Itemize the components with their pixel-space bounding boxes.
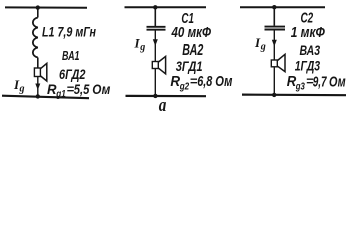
wire: speaker BA1 to bottom rail (37, 77, 39, 97)
svg-text:ВА2: ВА2 (182, 42, 203, 59)
loudspeaker BA3 body (271, 60, 277, 67)
svg-text:L1 7,9 мГн: L1 7,9 мГн (42, 23, 96, 39)
node: circuit 1 top junction (36, 5, 40, 9)
node: circuit 3 top junction (272, 5, 276, 9)
current arrow I_d circuit 2 (153, 39, 158, 46)
svg-text:Ом: Ом (215, 73, 232, 90)
wire: C1 to speaker BA2 (154, 31, 156, 62)
svg-text:g3: g3 (295, 82, 305, 93)
svg-text:1 мкФ: 1 мкФ (291, 24, 325, 41)
loudspeaker BA3 horn (278, 54, 286, 71)
wire: circuit 3 top rail (240, 6, 325, 8)
svg-text:1ГД3: 1ГД3 (295, 59, 321, 74)
wire: circuit 1 top rail (5, 6, 87, 8)
wire: from top junction down to coil (37, 8, 39, 18)
svg-text:6ГД2: 6ГД2 (59, 67, 86, 82)
svg-text:40 мкФ: 40 мкФ (171, 24, 211, 41)
current arrow I_d circuit 3 (272, 40, 277, 47)
svg-text:ВА3: ВА3 (300, 42, 321, 58)
svg-text:g: g (260, 42, 266, 53)
svg-text:Ом: Ом (92, 81, 111, 97)
node: circuit 1 bottom junction (36, 94, 40, 98)
svg-text:g2: g2 (179, 82, 190, 93)
svg-text:3ГД1: 3ГД1 (176, 58, 203, 74)
svg-text:6,8: 6,8 (197, 73, 213, 90)
svg-text:а: а (159, 95, 167, 116)
svg-text:g: g (139, 42, 145, 53)
node: circuit 2 bottom junction (153, 94, 157, 98)
wire: C2 to speaker BA3 (273, 30, 275, 60)
node: circuit 2 top junction (153, 5, 157, 9)
wire: speaker BA3 to bottom rail (273, 67, 275, 95)
loudspeaker BA2 body (152, 62, 158, 69)
svg-text:5,5: 5,5 (74, 81, 90, 97)
wire: speaker BA2 to bottom rail (154, 69, 156, 96)
capacitor C2 (265, 26, 286, 28)
loudspeaker BA1 horn (41, 63, 47, 81)
loudspeaker BA1 body (34, 68, 40, 77)
svg-text:ВА1: ВА1 (62, 49, 80, 63)
loudspeaker BA2 horn (159, 56, 166, 73)
node: circuit 3 bottom junction (272, 93, 276, 97)
wire: circuit 3 bottom rail (242, 93, 346, 96)
wire: junction to capacitor C1 (154, 7, 156, 26)
wire: coil to speaker BA1 (37, 58, 39, 69)
wire: circuit 2 bottom rail (126, 95, 207, 97)
capacitor C1 (147, 26, 166, 28)
current arrow I_d circuit 1 (35, 84, 40, 91)
inductor L1 (33, 18, 38, 58)
wire: circuit 2 top rail (125, 6, 207, 8)
svg-text:g1: g1 (55, 89, 66, 100)
svg-text:g: g (19, 84, 25, 95)
svg-text:9,7: 9,7 (313, 73, 327, 90)
wire: junction to capacitor C2 (273, 7, 275, 26)
svg-text:Ом: Ом (329, 73, 346, 90)
wire: circuit 1 bottom rail (2, 96, 89, 99)
